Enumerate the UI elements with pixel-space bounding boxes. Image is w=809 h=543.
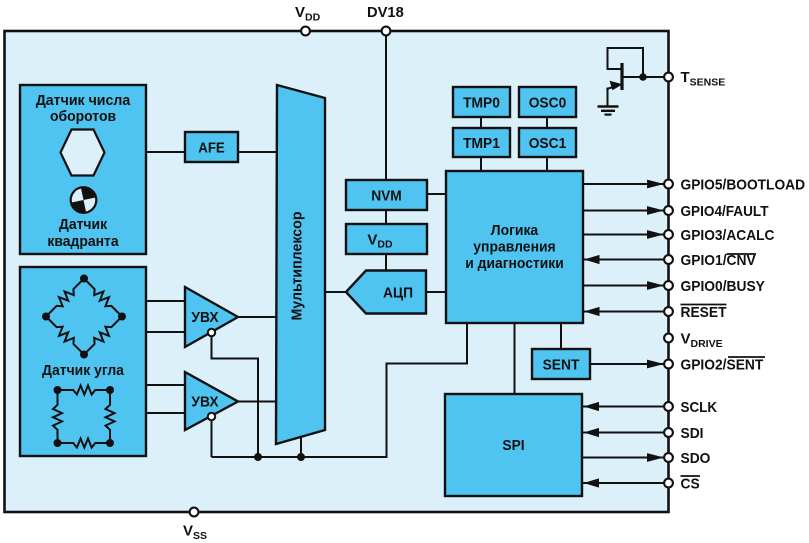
svg-text:RESET: RESET	[681, 304, 727, 321]
svg-text:SCLK: SCLK	[681, 399, 718, 416]
svg-text:CS: CS	[681, 476, 700, 493]
svg-text:TMP0: TMP0	[463, 95, 500, 112]
svg-text:DV18: DV18	[367, 4, 404, 21]
svg-text:GPIO4/FAULT: GPIO4/FAULT	[681, 203, 769, 220]
svg-text:Датчик угла: Датчик угла	[42, 362, 125, 379]
svg-text:квадранта: квадранта	[47, 233, 119, 250]
svg-text:SDI: SDI	[681, 425, 704, 442]
svg-text:управления: управления	[473, 239, 555, 256]
svg-text:TMP1: TMP1	[463, 135, 500, 152]
svg-text:Мультиплексор: Мультиплексор	[289, 212, 306, 321]
svg-text:GPIO0/BUSY: GPIO0/BUSY	[681, 278, 765, 295]
svg-text:OSC1: OSC1	[529, 135, 567, 152]
svg-text:SDO: SDO	[681, 450, 711, 467]
svg-text:оборотов: оборотов	[50, 108, 116, 125]
svg-text:Датчик числа: Датчик числа	[36, 92, 131, 109]
svg-text:УВХ: УВХ	[191, 309, 218, 326]
svg-text:GPIO5/BOOTLOAD: GPIO5/BOOTLOAD	[681, 177, 806, 194]
svg-text:OSC0: OSC0	[529, 95, 567, 112]
svg-text:Датчик: Датчик	[59, 216, 108, 233]
svg-text:АЦП: АЦП	[383, 285, 413, 302]
svg-text:SPI: SPI	[502, 437, 524, 454]
svg-text:NVM: NVM	[371, 188, 402, 205]
svg-text:AFE: AFE	[198, 140, 225, 157]
svg-text:GPIO2/SENT: GPIO2/SENT	[681, 357, 764, 374]
svg-text:и диагностики: и диагностики	[465, 255, 564, 272]
svg-text:SENT: SENT	[543, 357, 580, 374]
svg-text:Логика: Логика	[491, 222, 539, 239]
svg-text:GPIO3/ACALC: GPIO3/ACALC	[681, 227, 775, 244]
svg-text:УВХ: УВХ	[191, 394, 218, 411]
